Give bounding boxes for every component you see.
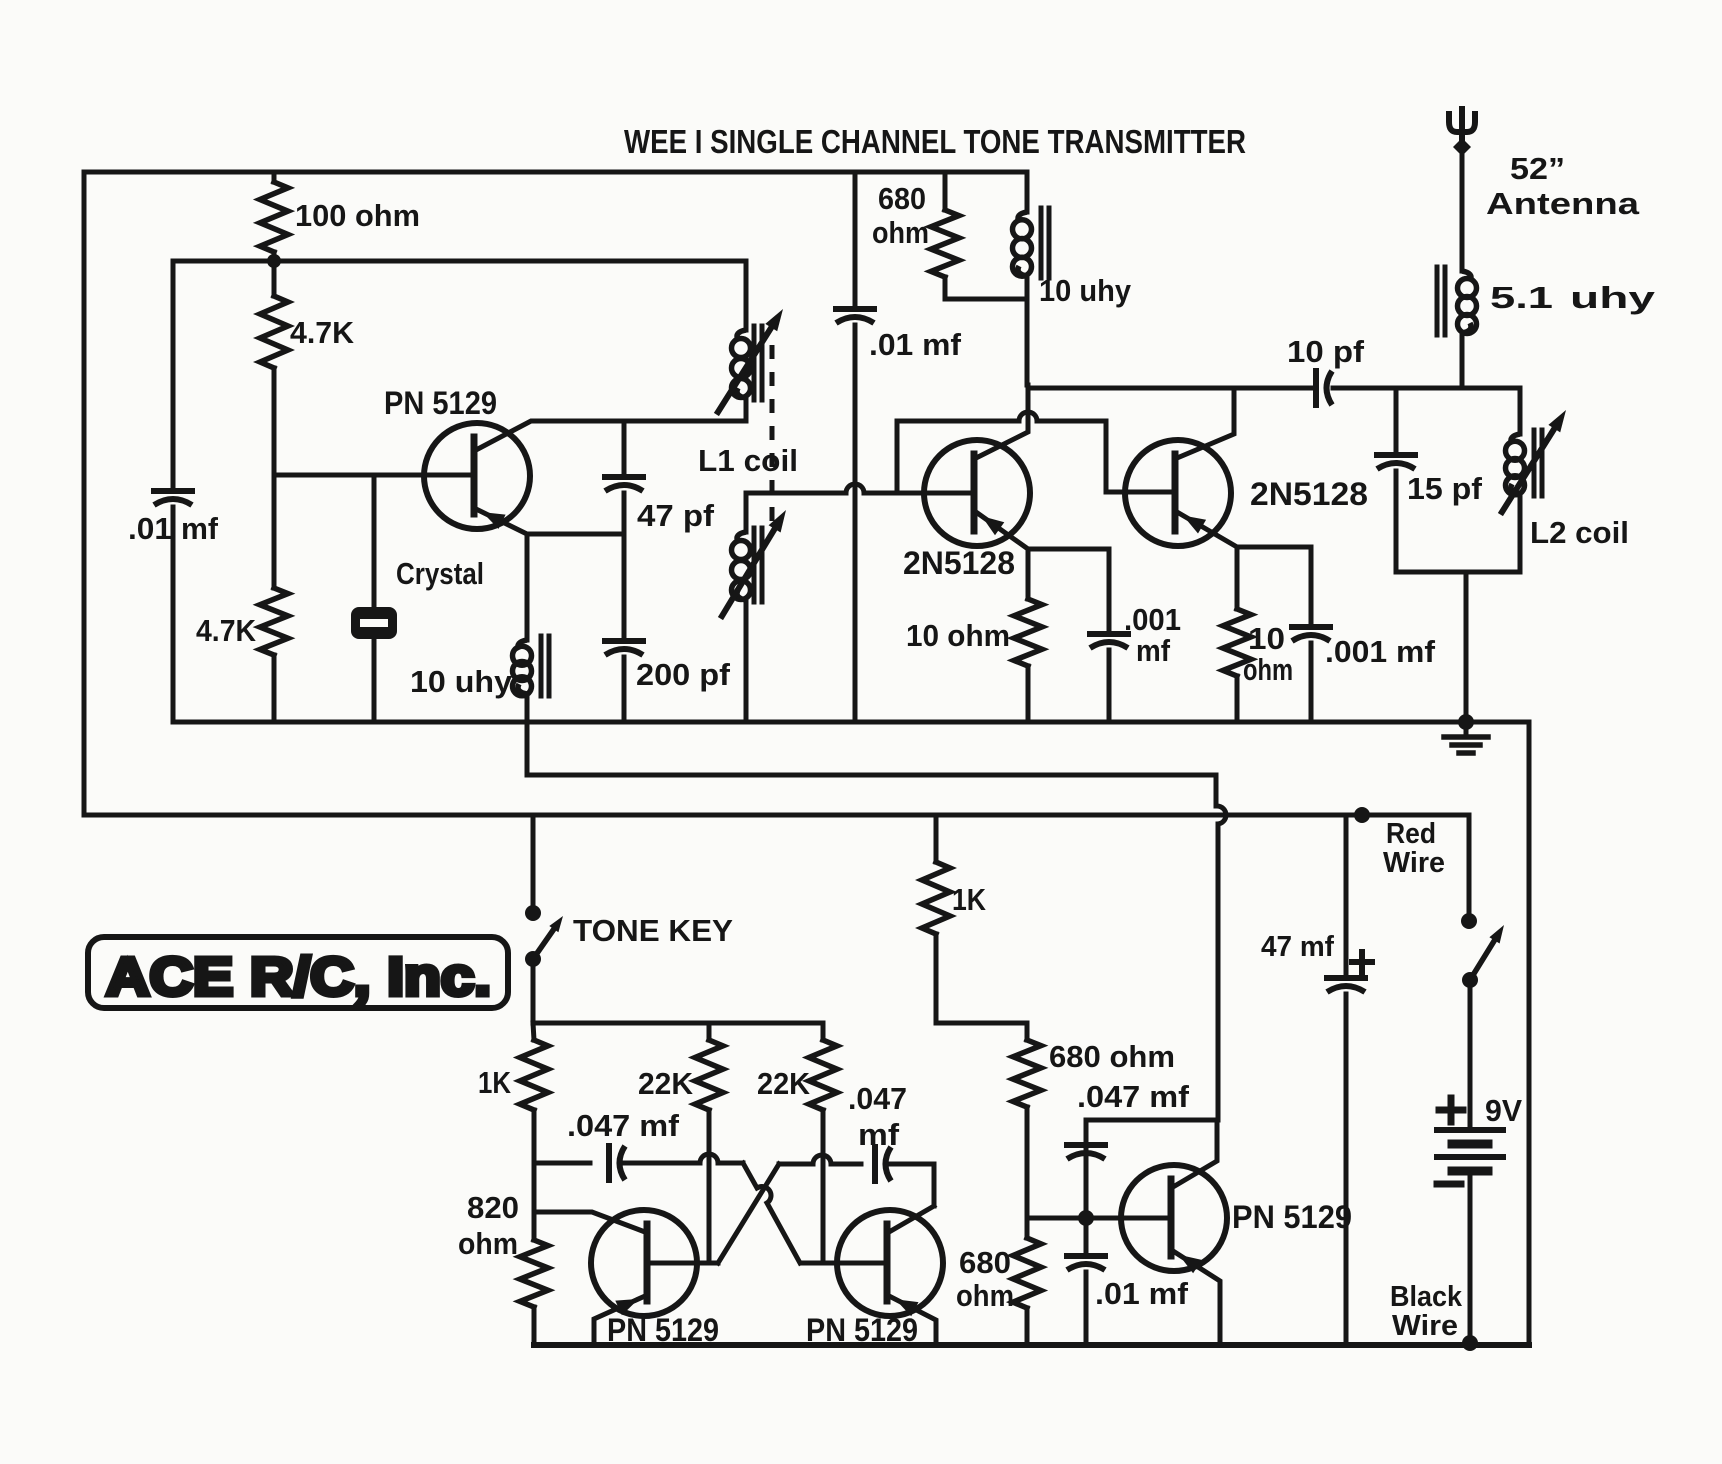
resistor R7 1K	[533, 1023, 534, 1040]
svg-text:ACE R/C, Inc.: ACE R/C, Inc.	[106, 947, 491, 1007]
wire Q6 collector	[1173, 1120, 1217, 1187]
wire Q2 emitter	[976, 512, 1028, 549]
wire Q6 base	[1027, 1216, 1167, 1221]
svg-text:100 ohm: 100 ohm	[295, 198, 420, 233]
capacitor C5 10 pf	[1313, 371, 1319, 405]
svg-text:10: 10	[1248, 621, 1285, 656]
inductor L3 10 uhy emitter	[518, 640, 527, 650]
wire Q2 collector	[976, 385, 1028, 458]
inductor L4 5.1 uhy	[1462, 271, 1471, 281]
capacitor C1 .01 mf	[154, 488, 192, 494]
svg-text:WEE I SINGLE CHANNEL TONE TRAN: WEE I SINGLE CHANNEL TONE TRANSMITTER	[624, 123, 1246, 160]
wire Q5 collector	[889, 1206, 934, 1232]
svg-text:L1 coil: L1 coil	[698, 443, 798, 478]
core L4	[1435, 267, 1440, 335]
wire C11 top	[1086, 1120, 1217, 1149]
wire switch to battery	[1468, 980, 1473, 1127]
wire L1a top	[744, 261, 749, 330]
wire gnd drop	[525, 722, 530, 775]
svg-text:.01 mf: .01 mf	[869, 327, 962, 362]
svg-text:10 ohm: 10 ohm	[906, 618, 1010, 653]
antenna node dot	[1453, 138, 1471, 156]
svg-text:680: 680	[959, 1245, 1011, 1280]
wire RF bus right	[1333, 386, 1520, 391]
transistor Q4 PN 5129	[591, 1210, 697, 1316]
core L1b	[752, 528, 757, 602]
wire cross coupl A	[743, 1163, 757, 1188]
svg-text:4.7K: 4.7K	[290, 315, 355, 350]
svg-text:.001 mf: .001 mf	[1325, 634, 1436, 669]
svg-text:ohm: ohm	[956, 1278, 1014, 1313]
emitter arrow Q5	[895, 1299, 918, 1316]
svg-text:2N5128: 2N5128	[1250, 476, 1368, 512]
svg-text:.047 mf: .047 mf	[1077, 1079, 1190, 1114]
wire C10 right	[889, 1164, 934, 1206]
svg-text:Black: Black	[1390, 1281, 1463, 1313]
resistor R4 680 ohm	[943, 172, 948, 210]
svg-text:Wire: Wire	[1383, 847, 1445, 879]
wire Q2 emitter rail	[1028, 547, 1109, 552]
wire Q4 collector	[534, 1212, 645, 1232]
wire Q1 base wire	[274, 473, 470, 478]
wire Q1 emitter rail	[527, 532, 624, 537]
capacitor C12 .01 mf	[1084, 1218, 1089, 1252]
wire tone link drop	[1214, 775, 1219, 806]
wire tone ground bus	[534, 1342, 1529, 1348]
node ground junction	[1458, 714, 1474, 730]
svg-text:10 uhy: 10 uhy	[1039, 273, 1132, 308]
svg-text:Red: Red	[1386, 818, 1436, 850]
wire L2 bottom	[1518, 494, 1523, 572]
svg-text:22K: 22K	[638, 1066, 694, 1101]
wire interstage drop	[895, 421, 900, 493]
svg-text:mf: mf	[1136, 633, 1171, 668]
svg-text:1K: 1K	[952, 882, 987, 917]
emitter arrow Q3	[1183, 516, 1206, 534]
svg-text:820: 820	[467, 1190, 519, 1225]
svg-text:mf: mf	[181, 511, 219, 546]
capacitor C6 .001 mf	[1090, 631, 1128, 637]
svg-text:ohm: ohm	[872, 215, 929, 250]
svg-text:47 mf: 47 mf	[1261, 931, 1334, 963]
svg-text:22K: 22K	[757, 1066, 811, 1101]
wire Q1 emitter	[476, 509, 527, 534]
svg-text:4.7K: 4.7K	[196, 613, 257, 648]
wire RF ground bus	[173, 720, 1529, 725]
logo ACE R/C box	[88, 937, 508, 1008]
wire Q4 emitter	[594, 1296, 645, 1345]
wire tone link	[527, 773, 1216, 778]
svg-text:47 pf: 47 pf	[637, 498, 715, 533]
core L3	[539, 636, 544, 696]
wire to collector bus	[1025, 299, 1030, 385]
crystal Y1	[351, 607, 397, 639]
core L1a	[752, 326, 757, 400]
emitter arrow Q4	[615, 1299, 638, 1315]
wire antenna stem	[1460, 150, 1465, 271]
svg-text:680: 680	[878, 181, 926, 216]
wire L2 top	[1518, 388, 1523, 434]
arrow L1a	[718, 328, 771, 412]
resistor R5 10 ohm	[1026, 549, 1031, 599]
svg-text:mf: mf	[858, 1117, 900, 1152]
svg-text:2N5128: 2N5128	[903, 545, 1015, 581]
resistor R1 100 ohm	[272, 172, 277, 182]
resistor R9 22K	[821, 1023, 826, 1040]
wire red wire drop	[1467, 815, 1472, 915]
svg-text:Wire: Wire	[1392, 1310, 1458, 1342]
wire L1b top	[744, 493, 749, 532]
wire C10 left	[779, 1162, 813, 1167]
switch S1 tone key	[525, 951, 541, 967]
wire L1b bottom	[744, 600, 749, 722]
wire Q4 base	[650, 1261, 718, 1266]
wire cross coupl B	[718, 1164, 779, 1263]
wire Q5 emitter	[889, 1296, 936, 1345]
resistor R10 1K	[934, 815, 939, 862]
svg-text:52”: 52”	[1510, 151, 1565, 186]
svg-text:1K: 1K	[478, 1065, 511, 1100]
wire tone key to rail	[531, 959, 536, 1023]
wire bias rail	[173, 259, 746, 264]
switch S2 power	[1461, 913, 1477, 929]
node A junction 100ohm/4.7K	[267, 254, 281, 268]
wire 47pf-200pf	[622, 493, 627, 637]
emitter arrow Q2	[982, 516, 1005, 535]
wire top supply bus	[84, 170, 1027, 175]
inductor L5 L2 coil	[1511, 434, 1520, 444]
capacitor C13 47 mf	[1327, 975, 1365, 981]
capacitor C7 .001 mf	[1292, 624, 1330, 630]
core L5	[1532, 430, 1537, 496]
svg-text:9V: 9V	[1485, 1093, 1522, 1128]
inductor L1a variable	[737, 330, 746, 340]
wire +9V bus	[84, 813, 1469, 818]
svg-text:10 uhy: 10 uhy	[410, 664, 513, 699]
svg-text:TONE KEY: TONE KEY	[573, 913, 733, 948]
svg-text:.001: .001	[1124, 602, 1181, 637]
wire C11 drop	[1084, 1141, 1089, 1218]
plus sign 47mf	[1352, 959, 1372, 965]
resistor R2 4.7K	[272, 261, 277, 296]
wire 15pf drop	[1394, 388, 1399, 451]
wire 15pf bottom	[1394, 471, 1399, 572]
dashed gang line L1	[770, 345, 775, 522]
wire emitter coil to bus	[525, 694, 530, 722]
wire 47pf top	[622, 421, 627, 473]
svg-text:PN 5129: PN 5129	[1232, 1199, 1352, 1235]
arrow L1b	[722, 529, 775, 616]
capacitor C10 .047 mf	[872, 1147, 878, 1181]
wire .01mf2 top	[853, 172, 858, 305]
svg-text:uhy: uhy	[1570, 280, 1656, 315]
svg-text:680 ohm: 680 ohm	[1049, 1039, 1175, 1074]
wire tone key drop	[531, 815, 536, 907]
wire emitter coil branch	[525, 534, 530, 640]
transistor Q3 2N5128	[1125, 440, 1231, 546]
wire mv rail	[533, 1021, 823, 1026]
capacitor C4 .01 mf	[836, 306, 874, 312]
transistor Q5 PN 5129	[837, 1210, 943, 1316]
wire Q3 emitter	[1177, 512, 1237, 547]
wire Q3 base drop	[1106, 421, 1171, 492]
svg-text:10 pf: 10 pf	[1287, 334, 1365, 369]
svg-text:PN 5129: PN 5129	[384, 385, 497, 421]
node 47mf junction	[1354, 807, 1370, 823]
minus sign battery	[1437, 1181, 1461, 1188]
wire 47mf bottom	[1344, 994, 1349, 1345]
wire .001mf2 drop	[1309, 547, 1314, 623]
capacitor C2 47 pf	[605, 474, 643, 480]
resistor R6 10 ohm	[1235, 547, 1240, 609]
svg-text:.01 mf: .01 mf	[1095, 1276, 1189, 1311]
wire .01mf branch upper	[171, 261, 176, 487]
resistor R12 680 ohm	[1025, 1023, 1030, 1040]
node tone key top	[525, 905, 541, 921]
ground symbol	[1464, 722, 1469, 734]
emitter arrow Q6	[1179, 1255, 1202, 1274]
transistor Q2 2N5128	[924, 440, 1030, 546]
wire Q6 emitter	[1173, 1251, 1220, 1345]
wire right border	[1527, 722, 1532, 1345]
svg-text:.047: .047	[848, 1081, 907, 1116]
core L2a	[1039, 208, 1044, 278]
wire RF bus	[1028, 386, 1312, 391]
wire .01mf branch lower	[171, 507, 176, 722]
wire .001mf1 drop	[1107, 549, 1112, 630]
wire Q3 collector	[1177, 388, 1234, 458]
battery BT1 9V	[1437, 1127, 1503, 1133]
wire left border	[82, 172, 87, 815]
resistor R8 22K	[707, 1023, 712, 1040]
svg-text:200 pf: 200 pf	[636, 657, 731, 692]
capacitor C9 .047 mf	[606, 1146, 612, 1180]
wire .001mf2 to bus	[1309, 643, 1314, 722]
capacitor C3 200 pf	[605, 638, 643, 644]
resistor R11 820 ohm	[532, 1163, 537, 1240]
capacitor C8 15 pf	[1377, 452, 1415, 458]
wire Q5 base	[801, 1261, 884, 1266]
svg-text:.047 mf: .047 mf	[567, 1108, 680, 1143]
wire C9 right + hop	[623, 1161, 700, 1166]
svg-text:ohm: ohm	[1243, 652, 1293, 687]
wire 680/coil join	[945, 297, 1027, 302]
wire crystal branch bottom	[372, 639, 377, 722]
wire 47mf top	[1344, 815, 1349, 974]
svg-text:5.1: 5.1	[1490, 280, 1553, 315]
inductor L2a 10 uhy	[1025, 172, 1030, 212]
node C11 junction	[1078, 1210, 1094, 1226]
wire Q1 collector	[476, 421, 744, 450]
node battery to bus	[1462, 1335, 1478, 1351]
svg-text:Crystal: Crystal	[396, 556, 484, 591]
plus sign battery	[1439, 1107, 1463, 1114]
svg-text:.01: .01	[128, 511, 172, 546]
wire tank bottom	[1396, 570, 1520, 575]
wire .01mf2 bottom	[853, 325, 858, 722]
capacitor C11 .047 mf	[1067, 1142, 1105, 1148]
svg-text:ohm: ohm	[458, 1226, 518, 1261]
emitter arrow Q1	[482, 512, 505, 529]
resistor R13 680 ohm	[1025, 1218, 1030, 1238]
antenna symbol	[1449, 111, 1475, 132]
wire antenna to bus	[1460, 333, 1465, 388]
wire 1K to 680	[936, 1021, 1027, 1026]
wire interstage	[897, 419, 1019, 424]
wire 200pf to bus	[622, 657, 627, 722]
svg-text:Antenna: Antenna	[1486, 186, 1640, 221]
transistor Q6 PN 5129	[1121, 1165, 1227, 1271]
wire L1a bottom	[744, 398, 749, 421]
inductor L1b variable	[737, 532, 746, 542]
wire .001mf1 to bus	[1107, 650, 1112, 722]
transistor Q1 PN 5129 oscillator	[424, 423, 530, 529]
arrow L2	[1502, 429, 1554, 512]
resistor R3 4.7K	[272, 475, 277, 588]
svg-text:L2 coil: L2 coil	[1530, 515, 1629, 550]
wire crystal branch top	[372, 475, 377, 607]
wire tank to ground	[1464, 572, 1469, 722]
capacitor C9 .047 mf wire	[534, 1161, 590, 1166]
svg-text:15 pf: 15 pf	[1407, 471, 1483, 506]
wire Q3 emitter rail	[1237, 545, 1311, 550]
wire Q2 base long	[746, 491, 846, 496]
